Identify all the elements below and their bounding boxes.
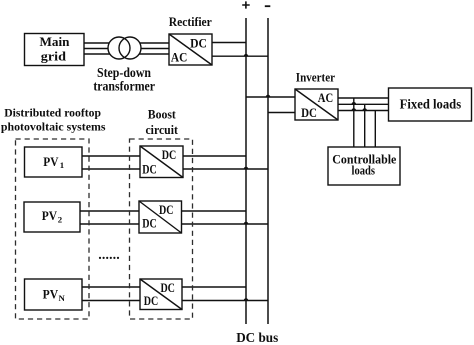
svg-text:DC: DC	[142, 163, 157, 177]
svg-text:2: 2	[58, 214, 63, 224]
svg-text:DC: DC	[160, 281, 175, 295]
svg-text:grid: grid	[41, 49, 67, 64]
svg-text:photovoltaic systems: photovoltaic systems	[1, 120, 106, 134]
svg-text:Main: Main	[40, 34, 71, 49]
svg-text:Inverter: Inverter	[296, 70, 336, 84]
svg-text:PV: PV	[43, 287, 59, 302]
svg-text:1: 1	[60, 160, 64, 170]
svg-text:DC: DC	[301, 106, 317, 120]
svg-text:Fixed loads: Fixed loads	[400, 97, 462, 112]
svg-text:circuit: circuit	[145, 123, 178, 137]
svg-text:transformer: transformer	[93, 78, 155, 93]
svg-text:N: N	[59, 293, 66, 303]
svg-text:Rectifier: Rectifier	[169, 15, 212, 29]
svg-text:DC: DC	[144, 294, 159, 308]
svg-text:PV: PV	[42, 208, 58, 223]
svg-text:Distributed rooftop: Distributed rooftop	[4, 106, 101, 120]
svg-text:Boost: Boost	[148, 108, 177, 122]
svg-text:AC: AC	[171, 50, 187, 64]
svg-text:DC bus: DC bus	[236, 330, 278, 345]
svg-text:loads: loads	[352, 164, 376, 178]
svg-text:DC: DC	[159, 203, 174, 217]
svg-text:PV: PV	[43, 154, 59, 169]
svg-text:DC: DC	[142, 217, 157, 231]
svg-text:DC: DC	[162, 148, 177, 162]
svg-text:AC: AC	[318, 91, 333, 105]
svg-text:DC: DC	[190, 36, 207, 50]
